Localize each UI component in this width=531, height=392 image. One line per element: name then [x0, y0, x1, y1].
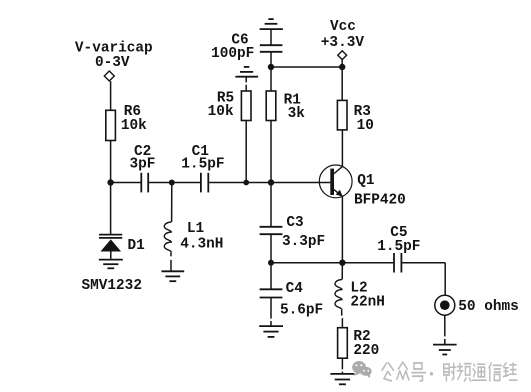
ground under C4: [259, 326, 283, 337]
wire R1 to base line: [270, 121, 272, 183]
svg-text:100pF: 100pF: [211, 46, 254, 62]
inductor L1: [164, 222, 171, 252]
wire output line left: [271, 262, 393, 264]
wire C4 drop: [270, 263, 272, 290]
transistor Q1: [319, 165, 352, 198]
junction node base/R1: [268, 179, 274, 185]
wire collector: [341, 130, 343, 167]
wire below L1 (after gap): [170, 260, 172, 271]
ground under R2: [330, 374, 354, 384]
junction node B: [169, 180, 175, 186]
svg-text:3.3pF: 3.3pF: [282, 234, 325, 250]
wire L1 drop: [171, 183, 173, 223]
connector 50 ohms: [435, 295, 455, 315]
svg-text:L1: L1: [187, 221, 205, 237]
svg-text:C4: C4: [286, 281, 304, 297]
wire R5 to base line: [245, 121, 247, 183]
terminal V-varicap: [104, 71, 114, 81]
watermark text 射: [444, 363, 456, 381]
watermark text 链: [504, 363, 518, 380]
resistor R6: [106, 110, 116, 140]
wire R2 to ground: [341, 358, 343, 369]
capacitor C3: [260, 227, 283, 234]
svg-text:0-3V: 0-3V: [95, 55, 130, 71]
watermark text 通: [473, 364, 487, 380]
wire C6 bottom stem: [270, 52, 272, 67]
wire C4 ground stem: [270, 321, 272, 326]
resistor R1: [266, 91, 276, 121]
resistor R2: [338, 328, 348, 359]
ground under D1: [99, 260, 123, 269]
capacitor C2: [141, 173, 148, 193]
wire R2 ground stem: [341, 372, 343, 374]
wire C4 to ground: [270, 298, 272, 319]
capacitor C5: [394, 253, 401, 273]
capacitor C6: [260, 45, 283, 52]
svg-text:1.5pF: 1.5pF: [181, 157, 224, 173]
capacitor C1: [201, 173, 208, 193]
wire Vcc rail: [271, 66, 342, 68]
svg-text:5.6pF: 5.6pF: [280, 302, 323, 318]
wire base line segment 2: [149, 182, 200, 184]
wire C6 top stem: [270, 29, 272, 45]
wire base line segment 3: [209, 182, 330, 184]
capacitor C4: [260, 289, 283, 297]
watermark wechat icon eyes: [355, 364, 369, 371]
wire stem above gap: [245, 77, 247, 83]
junction C3/C4 node: [268, 260, 274, 266]
inductor L2: [341, 263, 343, 280]
watermark text middle dot: [430, 372, 433, 376]
junction node A: [107, 179, 113, 185]
wire emitter: [341, 197, 343, 263]
wire R5 to ground stem: [245, 85, 247, 91]
wire C6 node to R1: [270, 67, 272, 91]
watermark text 信: [489, 363, 501, 381]
ground (inverted) above R5: [235, 67, 258, 77]
ground under connector: [433, 345, 457, 355]
wire Vcc to R3: [341, 67, 343, 100]
junction Vcc: [339, 64, 345, 70]
watermark text 众: [397, 362, 409, 380]
ground under L1: [161, 271, 184, 281]
resistor R5: [241, 91, 251, 121]
svg-text:220: 220: [353, 343, 379, 359]
svg-text:4.3nH: 4.3nH: [180, 236, 223, 252]
junction node R5: [243, 180, 249, 186]
svg-text:Q1: Q1: [357, 173, 375, 189]
wire below L2: [341, 310, 343, 316]
ground (inverted) above C6: [260, 19, 283, 29]
watermark text 号: [412, 363, 426, 381]
wire connector to ground: [444, 315, 446, 336]
junction Vcc rail left: [268, 64, 274, 70]
svg-text:D1: D1: [128, 238, 146, 254]
wire connector ground stem: [444, 339, 446, 345]
svg-text:+3.3V: +3.3V: [321, 35, 365, 51]
svg-text:Vcc: Vcc: [330, 19, 356, 35]
terminal Vcc: [338, 51, 347, 60]
svg-text:3pF: 3pF: [129, 157, 155, 173]
svg-text:22nH: 22nH: [350, 295, 385, 311]
watermark text 公: [382, 363, 394, 381]
wire output line right: [402, 262, 445, 264]
svg-text:10k: 10k: [121, 118, 147, 134]
watermark text 频: [457, 363, 471, 381]
junction emitter node: [339, 260, 345, 266]
svg-text:V-varicap: V-varicap: [75, 40, 153, 56]
svg-text:10: 10: [357, 118, 374, 134]
resistor R3: [337, 100, 347, 129]
svg-text:3k: 3k: [288, 106, 306, 122]
wire output corner drop: [444, 263, 446, 301]
wire Vcc terminal to junction: [341, 60, 343, 67]
wire below L2 (after gap): [341, 318, 343, 328]
wire: [110, 141, 112, 183]
wire below L1: [170, 252, 172, 256]
svg-text:SMV1232: SMV1232: [82, 278, 142, 294]
watermark wechat icon: [352, 361, 372, 378]
svg-text:C3: C3: [286, 215, 303, 231]
svg-text:50 ohms: 50 ohms: [458, 299, 518, 315]
svg-text:BFP420: BFP420: [354, 193, 406, 209]
wire D1 drop: [110, 183, 112, 235]
wire: [110, 81, 112, 110]
wire C3 drop: [270, 183, 272, 227]
svg-text:10k: 10k: [208, 104, 234, 120]
wire C3 to node: [270, 234, 272, 263]
wire base line segment 1: [111, 182, 141, 184]
varactor diode D1: [99, 235, 122, 259]
svg-text:1.5pF: 1.5pF: [377, 239, 420, 255]
